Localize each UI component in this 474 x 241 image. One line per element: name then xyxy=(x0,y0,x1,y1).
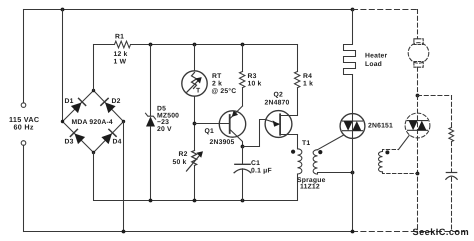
svg-text:1 W: 1 W xyxy=(114,59,127,66)
wire bridge left riser xyxy=(62,10,64,122)
node T1 secondary phasing dot xyxy=(318,150,322,154)
node bridge right at bottom rail xyxy=(122,230,126,234)
bridge MDA920A-4 diamond xyxy=(63,91,124,153)
wire DC plus rail xyxy=(131,44,298,46)
svg-text:0.1 μF: 0.1 μF xyxy=(251,168,272,175)
node RT top xyxy=(193,43,197,47)
wire left terminal lower lead xyxy=(23,145,25,231)
diode D2 xyxy=(101,98,116,113)
svg-text:11Z12: 11Z12 xyxy=(300,184,320,191)
wire bridge right vertex to bottom rail xyxy=(123,122,125,232)
wire R3 to Q1 emitter xyxy=(242,88,244,106)
resistor snubber R xyxy=(449,128,454,142)
wire top rail xyxy=(24,9,353,11)
svg-text:Load: Load xyxy=(365,61,382,68)
svg-text:RT: RT xyxy=(212,73,222,80)
svg-text:R1: R1 xyxy=(115,34,124,41)
wire RT upper lead xyxy=(194,45,196,71)
wire right column upper dashed xyxy=(451,96,453,128)
svg-text:C1: C1 xyxy=(251,160,260,167)
node pulse coil phasing dot xyxy=(385,150,389,154)
wire C1 upper lead xyxy=(242,147,244,165)
svg-text:2 k: 2 k xyxy=(212,80,222,87)
wire Q1 collector to Q2 emitter xyxy=(243,120,266,147)
svg-text:D4: D4 xyxy=(113,139,122,146)
terminal lower (115 VAC) xyxy=(21,141,26,146)
wire left terminal upper lead xyxy=(23,10,25,103)
wire control common rail xyxy=(94,153,298,201)
diode D1 xyxy=(71,98,86,113)
triac motor-control (dashed) 2N6151 xyxy=(405,113,430,138)
wire motor to junction dashed xyxy=(417,67,419,95)
node T1 primary phasing dot xyxy=(291,150,295,154)
svg-text:D2: D2 xyxy=(112,98,121,105)
node bridge right vertex xyxy=(122,120,125,123)
node Q1 collector / C1 junction xyxy=(241,145,245,149)
svg-text:MDA 920A-4: MDA 920A-4 xyxy=(72,119,113,126)
transformer T1 primary winding xyxy=(298,149,302,174)
node bridge bottom vertex xyxy=(92,151,95,154)
svg-text:2N3905: 2N3905 xyxy=(210,139,235,146)
terminal upper (115 VAC) xyxy=(21,103,26,108)
wire D5 lower lead xyxy=(150,127,152,201)
svg-text:10 k: 10 k xyxy=(248,80,262,87)
node dashed coil junction xyxy=(416,172,420,176)
svg-text:T1: T1 xyxy=(302,140,310,147)
wire R4 to Q2 B2 xyxy=(297,88,299,116)
wire RT to Q1 base node xyxy=(194,96,196,150)
wire gate diagonal to dashed triac xyxy=(399,135,410,149)
wire Q2 B1 to T1 primary xyxy=(297,135,299,149)
svg-text:R2: R2 xyxy=(179,151,188,158)
svg-text:60 Hz: 60 Hz xyxy=(14,123,34,132)
node heater top xyxy=(351,8,355,12)
node junction top rail to bridge xyxy=(61,8,65,12)
svg-text:@ 25°C: @ 25°C xyxy=(212,88,237,95)
node R3 top xyxy=(241,43,245,47)
wire bottom rail solid xyxy=(24,231,353,233)
node bridge left vertex xyxy=(61,120,64,123)
node D5 top xyxy=(149,43,153,47)
node triac bottom rail xyxy=(351,230,355,234)
potentiometer R2 50k xyxy=(192,151,197,166)
svg-text:R4: R4 xyxy=(303,73,312,80)
triac Q3 2N6151 xyxy=(340,114,365,139)
diode D3 xyxy=(70,129,85,144)
wire T1 secondary bottom to triac MT1 xyxy=(318,173,353,175)
resistor R4 1k xyxy=(295,72,300,88)
node C1 bottom xyxy=(241,199,245,203)
zener D5 MZ500-23 xyxy=(146,113,156,119)
wire coil top dashed xyxy=(383,150,399,152)
svg-text:1 k: 1 k xyxy=(303,80,313,87)
resistor R1 12k 1W xyxy=(115,41,131,48)
wire junction to right column dashed xyxy=(418,95,452,97)
wire R4 upper lead xyxy=(297,45,299,72)
svg-text:20 V: 20 V xyxy=(157,126,172,133)
node motor junction xyxy=(416,94,420,98)
wire dashed triac feed xyxy=(417,96,419,232)
wire D5 upper lead xyxy=(150,45,152,117)
wire bridge top vertex to R1 xyxy=(93,45,95,91)
wire C1 lower lead xyxy=(242,169,244,201)
svg-text:D1: D1 xyxy=(65,98,74,105)
transformer T1 secondary winding xyxy=(313,150,317,174)
svg-text:Q2: Q2 xyxy=(274,91,283,98)
svg-text:12 k: 12 k xyxy=(114,51,128,58)
svg-text:T: T xyxy=(196,88,201,95)
wire T1 secondary to triac gate xyxy=(318,135,344,150)
capacitor C1 0.1uF xyxy=(235,163,250,165)
node secondary to triac line xyxy=(351,171,355,175)
svg-text:D3: D3 xyxy=(65,139,74,146)
wire dashed top rail xyxy=(353,9,418,11)
svg-text:R3: R3 xyxy=(248,73,257,80)
wire heater to triac xyxy=(352,75,354,114)
wire right column lower dashed xyxy=(451,177,453,231)
wire R2 lower lead xyxy=(194,166,196,201)
wire T1 primary lower lead xyxy=(297,174,299,201)
svg-text:Q1: Q1 xyxy=(205,128,214,135)
node Q1 base junction xyxy=(193,122,197,126)
svg-text:50 k: 50 k xyxy=(173,159,187,166)
transistor Q2 2N4870 UJT xyxy=(265,111,292,138)
diode D4 xyxy=(101,129,116,144)
svg-text:Heater: Heater xyxy=(365,52,388,59)
node bridge top vertex xyxy=(92,89,95,92)
svg-text:SeekIC.com: SeekIC.com xyxy=(413,227,470,237)
wire R1 left lead xyxy=(94,44,115,46)
resistor R3 10k xyxy=(240,72,245,88)
motor (dashed) xyxy=(408,43,429,64)
wire R3 upper lead xyxy=(242,45,244,72)
transistor Q1 2N3905 xyxy=(219,111,245,137)
pulse coil (dashed) for motor triac gate xyxy=(379,152,383,172)
wire right column mid dashed xyxy=(451,142,453,173)
svg-text:2N6151: 2N6151 xyxy=(368,123,393,130)
wire bottom rail dashed xyxy=(353,231,464,233)
wire motor feed dashed xyxy=(417,10,419,39)
capacitor snubber C xyxy=(446,172,456,174)
node D5 bottom xyxy=(149,199,153,203)
thermistor RT 2k xyxy=(182,71,207,96)
node R2 bottom xyxy=(193,199,197,203)
wire coil bottom dashed xyxy=(383,172,418,174)
svg-text:2N4870: 2N4870 xyxy=(265,100,290,107)
heater load element xyxy=(344,10,356,75)
